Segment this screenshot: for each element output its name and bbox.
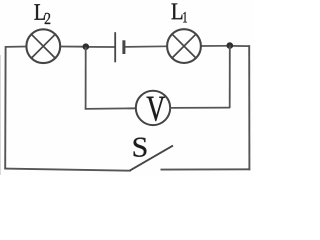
wire L2 to dot1: [60, 46, 86, 48]
wire voltmeter branch right horizontal: [170, 107, 230, 109]
label L1: [172, 4, 183, 20]
wire bottom-left segment: [4, 169, 131, 171]
label L2: [34, 4, 45, 19]
wire right edge: [248, 45, 250, 170]
battery B long plate: [114, 32, 116, 62]
wire voltmeter branch left vertical: [85, 47, 87, 110]
label S: [134, 138, 147, 157]
node junction dot 1: [83, 43, 90, 50]
wire voltmeter branch left horizontal: [85, 107, 136, 110]
wire bottom-right segment: [161, 168, 251, 170]
node junction dot 2: [227, 42, 234, 49]
wire voltmeter branch right vertical: [229, 46, 231, 108]
wire dot1 to battery: [86, 46, 115, 48]
lamp L2: [26, 29, 60, 63]
wire left edge: [4, 46, 6, 169]
battery B short plate: [122, 40, 125, 54]
wire top-left segment: [6, 46, 27, 48]
lamp L1: [167, 29, 201, 63]
switch S blade: [130, 146, 173, 171]
voltmeter V-meter: [136, 91, 170, 125]
wire battery to L1: [125, 45, 168, 48]
wire L1 to dot2: [201, 45, 231, 47]
wire dot2 to top-right corner: [230, 45, 251, 47]
